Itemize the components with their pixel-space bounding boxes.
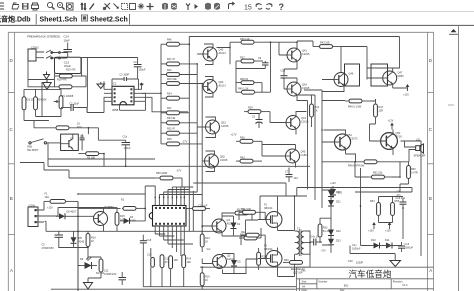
transistor Q47 D880 (383, 71, 404, 85)
ground open triangle below preamp (43, 80, 52, 90)
transistor Q44 C1815 (286, 116, 309, 130)
wire staircase to TL494 (189, 98, 202, 234)
capacitor C18 (140, 237, 152, 247)
TAB BAR (0, 14, 128, 23)
wire mid horizontal (48, 150, 310, 166)
title block frame (297, 267, 434, 291)
wire Q46 conn (322, 80, 344, 92)
diode D2 vertical (231, 257, 241, 269)
svg-text:SW-SPDT: SW-SPDT (27, 149, 39, 152)
resistor R53 vertical (318, 218, 331, 243)
diode D20 (328, 188, 341, 200)
wire con to fuse (44, 201, 58, 216)
svg-text:1000uF: 1000uF (405, 247, 414, 250)
wire bus 231 (45, 221, 221, 231)
ground below LED (84, 283, 93, 290)
svg-text:-17V: -17V (176, 170, 182, 173)
resistor R22 gate2 (241, 231, 265, 237)
svg-text:R42: R42 (167, 69, 172, 72)
svg-text:+12V: +12V (330, 182, 336, 185)
potentiometer P1 (54, 89, 74, 116)
resistor R20 on box bottom (54, 85, 86, 89)
transistor Q2b A1013 (213, 255, 235, 269)
wire R38 R40 left join (236, 74, 262, 93)
wire Q51 emitter chain (346, 154, 356, 162)
wire Q3 conn (58, 208, 104, 232)
ground big right (390, 261, 401, 267)
wire center tap down (200, 243, 310, 268)
wire Q1 conn (202, 216, 258, 236)
wire R52 joins (355, 162, 400, 177)
wire rectifier conn (320, 188, 331, 253)
resistor R21 gate1 (239, 208, 265, 214)
svg-text:?: ? (279, 2, 285, 12)
capacitor C17 (310, 236, 321, 246)
svg-text:Revision: Revision (393, 280, 403, 283)
wire pot bottom bus (24, 117, 61, 121)
SCROLLBAR (458, 25, 460, 291)
svg-text:C1815: C1815 (221, 125, 229, 128)
resistor R16 1K (34, 123, 98, 130)
LED D9 (80, 257, 97, 269)
resistor R34 (161, 92, 189, 100)
power +12V Q47 (403, 84, 409, 97)
wire preamp inner box (55, 57, 82, 73)
wire sub box Q2 (61, 134, 79, 150)
zener D8 (71, 234, 85, 246)
resistor R41 (161, 58, 197, 66)
capacitor C1 104 (61, 103, 83, 112)
svg-text:10K: 10K (187, 261, 192, 264)
svg-text:1000uF: 1000uF (352, 248, 361, 251)
svg-text:22R: 22R (379, 110, 384, 113)
svg-text:+12V: +12V (403, 94, 409, 97)
wire preamp out to C12 (82, 58, 138, 80)
svg-text:R33 4E: R33 4E (167, 117, 176, 120)
wire R16 risers (34, 121, 126, 141)
resistor R43b (236, 156, 262, 163)
node tip circle2 (59, 52, 61, 54)
svg-text:Sheet1.Sch: Sheet1.Sch (40, 16, 78, 23)
ground arrow preamp (44, 72, 50, 80)
wire D4 conn (120, 220, 146, 222)
svg-text:15: 15 (244, 5, 252, 12)
svg-text:D718: D718 (396, 136, 403, 139)
canvas top border (0, 24, 474, 26)
wire C5 D8 R16 bottoms (59, 231, 88, 261)
resistor R14 (182, 255, 192, 268)
transistor Q43 C1815 (287, 82, 310, 96)
diode D4 4148 (121, 216, 137, 224)
resistor R31 (161, 107, 189, 115)
wire Q62 base/collector (202, 151, 214, 172)
svg-text:4558: 4558 (112, 108, 119, 112)
wire Q50 conn (370, 124, 394, 155)
connector CON1 (28, 205, 44, 227)
svg-text:R48 0.47R/1W: R48 0.47R/1W (348, 165, 365, 168)
zener D12 (330, 182, 343, 198)
wire gate2 (241, 235, 266, 258)
resistor R12 (169, 256, 179, 269)
resistor R24b (239, 234, 261, 240)
svg-text:C10: C10 (281, 70, 286, 73)
wire rail links (297, 90, 322, 101)
diode D21 (328, 197, 341, 209)
svg-text:R45 04E: R45 04E (167, 78, 177, 81)
resistor R36 (236, 137, 262, 144)
wire mid vertical rails (308, 90, 323, 208)
svg-text:A1013: A1013 (219, 85, 227, 88)
mosfet P1 IRFZ44 (264, 204, 282, 228)
wire P2 conn (258, 248, 295, 277)
transistor Q62 C1815 (205, 154, 228, 168)
resistor R23 vertical (22, 89, 35, 120)
wire top bus (189, 36, 399, 38)
svg-text:R39: R39 (248, 107, 253, 110)
svg-text:D23: D23 (336, 239, 341, 242)
svg-text:-17V: -17V (182, 141, 188, 144)
wire jack tip contact (36, 50, 67, 53)
wire pin drop joins (155, 234, 193, 244)
transistor Q46 C2073 (334, 73, 354, 87)
wire bottom verticals (143, 235, 183, 287)
svg-text:D21: D21 (336, 201, 341, 204)
wire output bus down (400, 146, 421, 256)
wire ladder verticals (189, 37, 202, 144)
svg-text:R35: R35 (167, 138, 172, 141)
resistor R15 vertical (115, 208, 125, 232)
wire Q47 conn (367, 37, 400, 89)
svg-text:C19 471: C19 471 (396, 197, 406, 200)
capacitor C14b (352, 244, 361, 251)
wire LED chain (78, 257, 101, 283)
wire Q44 base/col (270, 112, 307, 135)
svg-text:C1b: C1b (123, 135, 128, 138)
resistor R18b vertical bottom (200, 266, 210, 289)
svg-text:C1815: C1815 (302, 53, 310, 56)
resistor R54 vertical (370, 197, 380, 223)
svg-text:IC1: IC1 (112, 82, 117, 86)
svg-text:R18 47K: R18 47K (57, 79, 67, 82)
wire IC1 right connections (142, 93, 152, 110)
power +17V at IC1 (138, 82, 144, 89)
svg-text:4700P/16V: 4700P/16V (104, 273, 117, 276)
svg-text:汽车低音炮: 汽车低音炮 (349, 268, 392, 279)
svg-text:D22: D22 (336, 230, 341, 233)
wire Q2 collector up (61, 134, 73, 150)
wire Q61 base/collector (197, 117, 215, 138)
diode D23 (328, 236, 341, 248)
svg-text:+17V: +17V (138, 83, 144, 86)
wire Q51 conn (322, 130, 346, 154)
wire IC1 out right (93, 97, 188, 112)
wire C9 bottom (236, 61, 265, 74)
resistor R23b pulldown (257, 248, 267, 270)
svg-text:+17V: +17V (231, 134, 237, 137)
resistor R17 (96, 259, 105, 275)
svg-text:104: 104 (294, 177, 299, 180)
resistor R30 11K (230, 38, 271, 44)
svg-text:C16 1uF: C16 1uF (198, 205, 208, 208)
wire pot top bus (24, 82, 61, 116)
transistor Q2 9014 small (65, 138, 74, 149)
wire IC1 right pins (134, 89, 142, 101)
transistor Q3 8550 (94, 206, 115, 226)
svg-text:Size: Size (302, 280, 307, 283)
transformer T1 secondary (301, 231, 306, 254)
wire D6 to Q3 (68, 215, 94, 217)
svg-text:R31: R31 (167, 107, 172, 110)
resistor R18 (55, 74, 82, 81)
svg-text:4700P/25V: 4700P/25V (42, 247, 55, 250)
label T1 values (291, 268, 305, 275)
svg-text:R49 0.1/1W: R49 0.1/1W (348, 106, 362, 109)
svg-text:R32 47: R32 47 (167, 127, 176, 130)
svg-text:1K: 1K (205, 241, 208, 244)
wire box bottom path (28, 74, 55, 87)
resistor R35 (161, 138, 202, 146)
wire TL494 left vertical (78, 194, 145, 221)
fuse F1 10A (44, 193, 78, 204)
resistor R46 (161, 39, 189, 47)
wire TL494 top pin bus (172, 186, 184, 188)
wire jack ring contact (36, 56, 67, 59)
switch SW1 (27, 139, 61, 152)
svg-text:1K: 1K (205, 279, 208, 282)
capacitor C7 104 (285, 168, 298, 183)
resistor R44 vertical (310, 104, 320, 117)
diode D6 4007 (56, 211, 77, 220)
svg-text:10K: 10K (174, 259, 179, 262)
svg-text:SPEAKER: SPEAKER (414, 155, 426, 158)
wire Q40 base/collector (197, 44, 213, 65)
wire R43 path (297, 41, 367, 80)
resistor R45 (161, 78, 202, 86)
wire Q41 base/col (270, 42, 297, 69)
title small labels (301, 270, 408, 291)
diode D1 vertical (231, 220, 241, 232)
wire left border link (20, 163, 155, 179)
transistor Q41 C1815 (287, 48, 310, 62)
svg-text:100uF: 100uF (124, 147, 132, 150)
capacitor C19 (396, 197, 407, 208)
power +12V Q50 (388, 120, 394, 130)
wire gate bus y183 (193, 183, 294, 238)
wire ladder left bus (142, 44, 161, 144)
wire right vertical of preamp (82, 57, 88, 107)
speaker LS1 (414, 139, 426, 158)
wire IC1 left drops (87, 81, 104, 112)
capacitor C6 100uF (122, 135, 132, 150)
svg-text:R60: R60 (284, 259, 289, 262)
wire Q46 box (345, 64, 360, 86)
wire Q2b conn (202, 254, 258, 274)
diode D10 (371, 239, 383, 249)
resistor R2 right of TL494 (187, 205, 211, 211)
wire rect top bus (297, 188, 412, 197)
power +12V arrow2 (385, 222, 391, 233)
resistor R39 (244, 107, 270, 114)
wire feedback long (48, 143, 155, 167)
resistor R40 1.2K (236, 88, 271, 95)
wire C1 to right (77, 108, 87, 113)
resistor R43 10E (313, 42, 341, 49)
capacitor C11 (119, 272, 127, 285)
resistor R24 vertical (34, 89, 47, 116)
TL494 pin numbers (155, 197, 185, 199)
resistor R33 (161, 117, 197, 125)
label C13 100uF R19 (64, 60, 76, 71)
svg-text:Title: Title (301, 270, 306, 273)
svg-text:Sheet2.Sch: Sheet2.Sch (90, 16, 128, 23)
capacitor C16 (147, 254, 154, 268)
svg-text:A1013: A1013 (219, 52, 227, 55)
svg-text:Number: Number (319, 280, 328, 283)
wire P1 drain bus (260, 196, 307, 277)
svg-text:R54: R54 (370, 200, 375, 203)
resistor R13 vertical top (200, 230, 210, 252)
power +12V arrows (368, 222, 376, 233)
toolbar bottom line (0, 11, 474, 13)
wire transformer mid tap (295, 231, 323, 254)
node ring circle2 (59, 57, 61, 59)
resistor R11 (160, 255, 170, 268)
ground arrow near IC1 (97, 82, 105, 89)
transistor Q51 C2073 (334, 134, 358, 150)
svg-text:D11: D11 (385, 239, 390, 242)
SHEET FRAME (8, 32, 433, 291)
svg-text:+12V: +12V (385, 230, 391, 233)
capacitor C5 4700P/25V (42, 231, 64, 250)
svg-text:P1 100KB: P1 100KB (62, 95, 74, 98)
svg-text:D20: D20 (336, 191, 341, 194)
capacitor C3 polar (252, 113, 263, 128)
svg-text:B: B (10, 196, 13, 201)
svg-text:100uF: 100uF (139, 69, 147, 72)
capacitor C2 100P above IC1 (112, 74, 139, 82)
resistor R38 1K (236, 78, 262, 85)
wire R17b conn (222, 213, 258, 220)
wire TL494 bottom pins (155, 226, 184, 260)
resistor R52 (368, 172, 392, 179)
svg-text:1K: 1K (91, 240, 94, 243)
svg-text:D10: D10 (371, 239, 376, 242)
node tip circle (51, 52, 53, 54)
resistor R60 (284, 259, 303, 264)
wire P1 conn (258, 196, 278, 231)
svg-text:R55: R55 (395, 200, 400, 203)
wire Q47 emitter to +12V (393, 88, 408, 91)
svg-text:C18: C18 (147, 239, 152, 242)
svg-text:A: A (429, 268, 432, 273)
resistor R49 0.1/1W (345, 99, 370, 108)
wire TL494 top pins (155, 187, 184, 206)
svg-text:R41 47: R41 47 (167, 58, 176, 61)
wire R60 (283, 261, 291, 263)
transistor Q1 A1013 (212, 219, 234, 233)
wire bottom bus lines (51, 287, 296, 290)
wire preamp outer box (28, 61, 82, 80)
resistor R32 (161, 127, 197, 135)
wire speaker conn (401, 141, 416, 162)
wire gate1 (239, 212, 265, 220)
svg-text:R56 100R: R56 100R (156, 172, 167, 175)
svg-text:0.47R: 0.47R (411, 172, 418, 175)
wire main vertical thick (77, 201, 79, 291)
capacitor C8 471 (397, 191, 402, 198)
svg-text:C13: C13 (64, 60, 70, 64)
svg-text:C1815: C1815 (220, 159, 228, 162)
svg-text:4148: 4148 (79, 241, 85, 244)
svg-text:+12V: +12V (368, 230, 374, 233)
svg-text:IRFZ44: IRFZ44 (264, 207, 273, 210)
svg-text:Q46: Q46 (349, 73, 354, 76)
transistor Q45 C1815 (286, 149, 309, 163)
transistor Q40 A1013 (203, 47, 226, 61)
svg-text:PREAMPJACK (STEREO): PREAMPJACK (STEREO) (27, 35, 60, 39)
ic U2 TL494 body (149, 206, 186, 227)
wire staircase horizontals (145, 178, 202, 199)
resistor R17b (235, 209, 252, 215)
resistor R5 (78, 152, 104, 160)
svg-text:B: B (429, 196, 432, 201)
svg-text:10uF: 10uF (64, 39, 71, 43)
capacitor C14 (64, 35, 73, 58)
connector CON2 jack body (28, 46, 39, 62)
svg-text:R52 22k: R52 22k (373, 172, 383, 175)
resistor R16 vertical (86, 234, 96, 247)
transistor Q60 A1013 (203, 80, 226, 94)
node ring circle (51, 57, 53, 59)
wire to ground (394, 254, 396, 261)
capacitor C9 (258, 57, 269, 69)
capacitor C12 100uF (134, 58, 147, 74)
resistor R47 22R vertical (374, 99, 384, 124)
wire IC1 left pins (104, 89, 112, 101)
resistor R55 vertical (391, 197, 400, 223)
transformer T1 primary (295, 228, 301, 255)
capacitor C4 (80, 134, 85, 150)
svg-text:V1.0: V1.0 (402, 284, 408, 287)
diode D22 (328, 227, 341, 239)
wire Q3 R15 tops (104, 207, 118, 209)
resistor R37 1K (236, 57, 263, 63)
svg-text:10A: 10A (45, 196, 50, 199)
svg-text:C2073: C2073 (350, 138, 358, 141)
resistor R42 (161, 69, 197, 77)
label C20 1000P (348, 260, 364, 265)
TOOLBAR ICONS (0, 2, 284, 12)
wire R49 joins (322, 99, 376, 101)
wire Q43 base/col (271, 42, 307, 100)
wire Q47 box (371, 64, 388, 86)
diode D11 (383, 239, 395, 249)
svg-text:R34: R34 (167, 92, 172, 95)
svg-text:D880: D880 (398, 75, 405, 78)
svg-text:低音炮.Ddb: 低音炮.Ddb (0, 14, 31, 23)
label C11 (104, 270, 117, 277)
wire Q45 base/col (262, 141, 296, 167)
svg-text:B02: B02 (344, 285, 349, 288)
svg-text:1000P: 1000P (356, 262, 364, 265)
resistor R48 0.47R (322, 160, 409, 168)
svg-text:+12V: +12V (388, 120, 394, 123)
wire Q40 collector to R30 (217, 42, 230, 64)
transistor Q61 C1815 (206, 120, 229, 134)
svg-text:C16: C16 (147, 254, 152, 257)
wire C2 loop (112, 79, 139, 90)
wire Q60 base/collector (202, 77, 213, 98)
